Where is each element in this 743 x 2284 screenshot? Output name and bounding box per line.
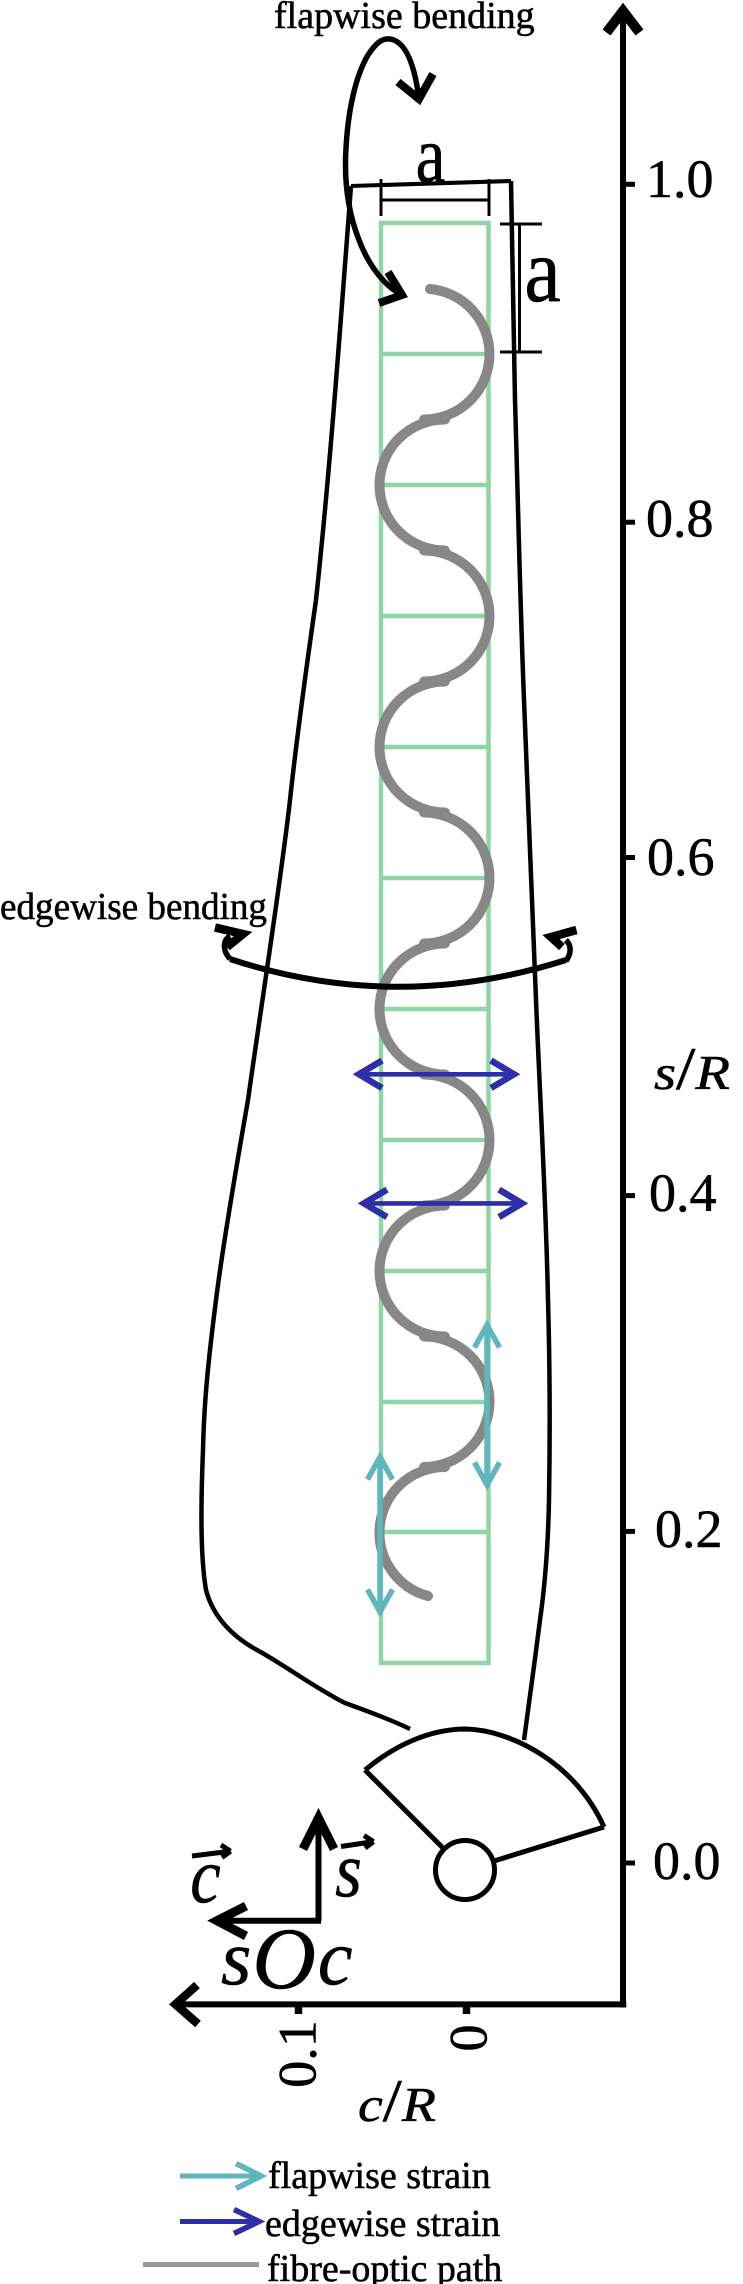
flapwise strain arrow (left) — [368, 1457, 393, 1612]
svg-text:0: 0 — [439, 2025, 499, 2052]
svg-text:edgewise bending: edgewise bending — [0, 886, 267, 928]
edgewise left head — [215, 928, 243, 948]
svg-text:sOc: sOc — [221, 1911, 353, 2008]
svg-text:1.0: 1.0 — [646, 149, 714, 209]
legend: fibre-optic path line — [143, 2262, 259, 2267]
legend: flapwise strain arrow — [180, 2164, 261, 2189]
x axis arrowhead — [176, 1985, 199, 2024]
edgewise strain arrow 1 — [359, 1061, 514, 1089]
flapwise bending loop arrow — [346, 39, 419, 295]
legend: edgewise strain arrow — [180, 2210, 259, 2234]
flapwise loop head (lower) — [379, 272, 402, 303]
hub circle — [436, 1841, 495, 1900]
edgewise left curl — [224, 936, 230, 959]
dimension a (top): left tick — [380, 179, 383, 216]
svg-text:0.4: 0.4 — [649, 1163, 717, 1223]
svg-text:0.2: 0.2 — [655, 1499, 723, 1559]
edgewise right head — [551, 930, 577, 947]
fibre-optic path (grey serpentine) — [379, 289, 489, 1596]
dimension a (right): top tick — [500, 223, 542, 226]
svg-text:c: c — [190, 1833, 220, 1919]
hub fan: right leg — [494, 1827, 604, 1861]
svg-text:0.6: 0.6 — [647, 827, 715, 887]
x axis ticks — [299, 2006, 467, 2014]
dimension a (top): measure line — [381, 199, 489, 202]
svg-text:0.0: 0.0 — [653, 1831, 721, 1891]
svg-text:flapwise bending: flapwise bending — [274, 0, 535, 37]
svg-text:edgewise strain: edgewise strain — [265, 2203, 500, 2245]
svg-text:c/R: c/R — [358, 2068, 436, 2134]
coordinate frame: s arrow (up) — [316, 1822, 322, 1921]
blade outline: right edge — [511, 181, 550, 1740]
edgewise bending arc — [230, 959, 566, 987]
green calibration grid (ladder) — [381, 223, 489, 1663]
svg-text:fibre-optic path: fibre-optic path — [267, 2248, 502, 2284]
edgewise strain arrow 2 — [364, 1190, 522, 1218]
blade outline: left edge — [201, 186, 410, 1729]
svg-text:s: s — [335, 1827, 362, 1913]
edgewise right curl — [566, 940, 570, 961]
y axis line — [620, 19, 626, 2008]
blade outline: tip edge — [351, 181, 511, 186]
dimension a (top): right tick — [488, 179, 491, 216]
svg-text:a: a — [416, 110, 446, 199]
hub fan: top arc — [365, 1729, 604, 1827]
hub fan: left leg — [365, 1770, 444, 1849]
flapwise loop head (upper) — [398, 74, 433, 99]
svg-text:0.8: 0.8 — [646, 489, 714, 549]
coordinate frame: c arrow (left) — [222, 1918, 321, 1924]
dimension a (right): bottom tick — [500, 351, 542, 354]
svg-text:0.1: 0.1 — [268, 2020, 328, 2088]
flapwise strain arrow (right) — [475, 1325, 500, 1485]
svg-text:a: a — [524, 220, 560, 321]
y axis ticks — [623, 184, 635, 1863]
svg-text:flapwise strain: flapwise strain — [268, 2155, 491, 2197]
x axis line — [178, 2001, 626, 2007]
dimension a (right): measure line — [518, 224, 521, 352]
y axis arrowhead — [607, 11, 640, 33]
svg-text:s/R: s/R — [654, 1036, 730, 1102]
